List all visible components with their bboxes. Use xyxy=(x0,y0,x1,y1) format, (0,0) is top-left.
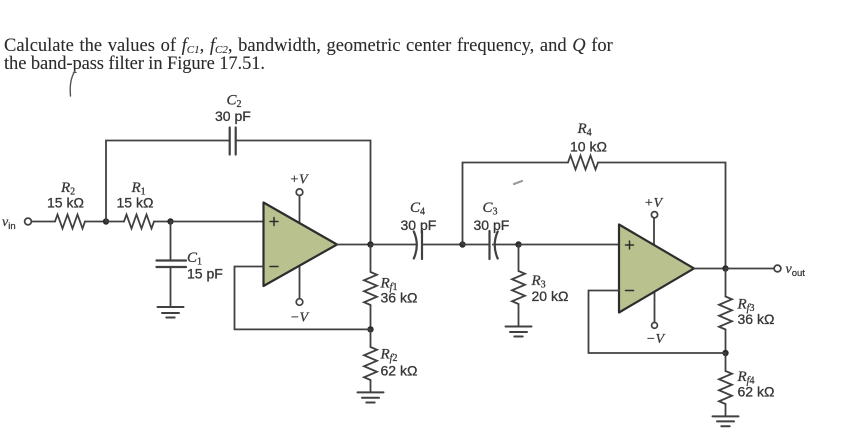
svg-text:30 pF: 30 pF xyxy=(215,108,251,124)
wire U2 minus feedback to node G xyxy=(589,291,726,354)
op-amp U1 supply wire +V xyxy=(299,195,301,224)
svg-text:vout: vout xyxy=(786,262,806,279)
resistor Rf4 xyxy=(719,371,732,404)
svg-text:10 kΩ: 10 kΩ xyxy=(570,139,607,155)
svg-text:15 kΩ: 15 kΩ xyxy=(117,195,154,211)
op-amp U2 supply wire +V xyxy=(653,218,655,246)
wire node B down to C1 xyxy=(170,222,172,261)
svg-text:30 pF: 30 pF xyxy=(401,217,437,233)
wire C4 to node D xyxy=(422,244,463,246)
svg-text:R4: R4 xyxy=(577,121,592,139)
svg-text:36 kΩ: 36 kΩ xyxy=(381,290,418,306)
capacitor C3 xyxy=(490,231,498,259)
wire Vin to R2 xyxy=(32,221,56,223)
wire Rf3 to node G xyxy=(725,330,727,354)
wire node A to R1 xyxy=(106,221,124,223)
ground under Rf4 xyxy=(713,416,739,426)
wire U2 output to node F xyxy=(694,268,726,270)
wire node D to C3 xyxy=(463,244,490,246)
node E junction xyxy=(515,241,521,247)
svg-text:−V: −V xyxy=(290,311,309,326)
node D junction xyxy=(459,241,465,247)
op-amp U2 plus pin mark xyxy=(626,241,634,249)
node Vout terminal xyxy=(774,265,781,272)
node H junction xyxy=(367,326,373,332)
op-amp U1 minus pin mark xyxy=(270,266,278,268)
resistor Rf1 xyxy=(364,272,377,305)
op-amp U1 xyxy=(264,203,338,287)
resistor R4 xyxy=(568,156,598,170)
op-amp U1 +V terminal xyxy=(296,189,303,196)
svg-text:20 kΩ: 20 kΩ xyxy=(532,288,569,304)
wire node F down to Rf3 xyxy=(725,269,727,297)
node C junction xyxy=(367,241,373,247)
svg-text:62 kΩ: 62 kΩ xyxy=(738,384,775,400)
wire R2 to node A xyxy=(85,221,106,223)
resistor Rf2 xyxy=(364,347,377,380)
capacitor C2 xyxy=(230,128,236,155)
wire node H to Rf2 xyxy=(370,329,372,347)
svg-text:30 pF: 30 pF xyxy=(474,217,510,233)
wire Rf1 to node H xyxy=(370,305,372,329)
op-amp U1 -V terminal xyxy=(296,299,303,306)
wire C2 to node C xyxy=(237,141,371,244)
problem text line 1 xyxy=(4,37,613,60)
wire node E down to R3 xyxy=(518,245,520,272)
resistor Rf3 xyxy=(719,297,732,330)
node G junction xyxy=(722,350,728,356)
wire U1 minus feedback to node H xyxy=(235,267,371,330)
resistor R1 xyxy=(124,215,154,229)
wire Rf4 to ground xyxy=(725,404,727,416)
svg-text:15 pF: 15 pF xyxy=(187,266,223,282)
node A junction xyxy=(103,218,109,224)
wire C1 to ground xyxy=(170,267,172,307)
wire node A up to C2 xyxy=(106,141,229,222)
op-amp U2 minus pin mark xyxy=(626,290,634,292)
svg-text:C3: C3 xyxy=(483,200,498,218)
pen mark xyxy=(70,71,75,96)
capacitor C1 xyxy=(157,261,187,268)
ground under Rf2 xyxy=(358,392,384,402)
op-amp U2 supply wire -V xyxy=(654,292,656,322)
wire R3 to ground xyxy=(518,304,520,327)
svg-text:+V: +V xyxy=(290,172,309,187)
svg-text:36 kΩ: 36 kΩ xyxy=(738,311,775,327)
op-amp U2 -V terminal xyxy=(652,323,658,329)
op-amp U1 supply wire -V xyxy=(299,266,301,299)
wire node C to C4 xyxy=(371,244,418,246)
wire C3 to node E xyxy=(493,244,519,246)
wire node F to Vout terminal xyxy=(726,268,775,270)
svg-text:−V: −V xyxy=(646,332,665,347)
op-amp U1 plus pin mark xyxy=(270,218,278,226)
node B junction xyxy=(167,218,173,224)
svg-text:Rf2: Rf2 xyxy=(380,347,398,365)
wire node G to Rf4 xyxy=(725,353,727,371)
node F junction xyxy=(722,265,728,271)
problem text line 2 xyxy=(4,55,265,74)
wire R4 to node F column xyxy=(598,163,726,268)
wire node E to op-amp U2 plus input xyxy=(519,244,620,246)
node Vin terminal xyxy=(25,218,32,225)
resistor R2 xyxy=(55,215,85,229)
ground under C1 xyxy=(158,307,184,318)
capacitor C4 xyxy=(414,231,422,259)
op-amp U2 xyxy=(619,225,694,313)
svg-text:C4: C4 xyxy=(410,200,425,218)
wire node C down to Rf1 xyxy=(370,245,372,273)
wire R1 to node B xyxy=(154,221,171,223)
wire Rf2 to ground xyxy=(370,380,372,392)
wire node B to op-amp U1 plus input xyxy=(171,221,265,223)
wire U1 output to node C xyxy=(337,244,371,246)
svg-text:+V: +V xyxy=(644,196,663,211)
svg-text:vin: vin xyxy=(2,215,16,232)
ground under R3 xyxy=(506,327,532,337)
svg-text:62 kΩ: 62 kΩ xyxy=(381,363,418,379)
svg-text:15 kΩ: 15 kΩ xyxy=(47,195,84,211)
smudge mark xyxy=(514,181,522,184)
wire node D up and over to R4 xyxy=(463,163,569,245)
op-amp U2 +V terminal xyxy=(651,212,657,218)
resistor R3 xyxy=(512,271,525,304)
